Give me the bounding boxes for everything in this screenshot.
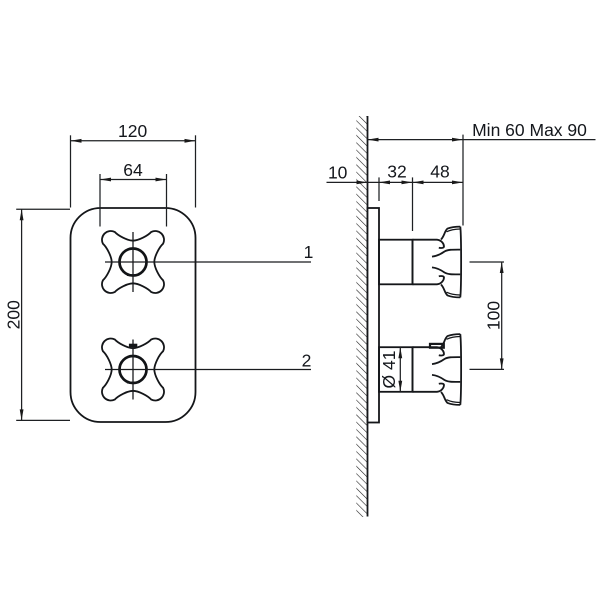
- svg-text:2: 2: [302, 350, 312, 370]
- knob 2 side: [413, 334, 462, 405]
- svg-text:48: 48: [430, 162, 449, 182]
- handle 2 index tick: [129, 344, 137, 348]
- wall line: [367, 116, 369, 517]
- dimension 120: [71, 135, 196, 207]
- cartridge sleeve 2: [379, 347, 413, 392]
- knob 1 side: [413, 227, 462, 298]
- dimension 100: [470, 262, 505, 369]
- svg-text:64: 64: [123, 160, 143, 180]
- escutcheon plate side: [368, 208, 380, 423]
- svg-text:1: 1: [304, 242, 314, 262]
- svg-text:120: 120: [118, 121, 147, 141]
- handle 2 front: [102, 338, 164, 400]
- knob 2 index tab: [430, 344, 444, 348]
- handle 1 front: [102, 231, 164, 293]
- svg-text:10: 10: [328, 163, 348, 183]
- leader line 1: [105, 261, 311, 263]
- svg-text:100: 100: [484, 301, 504, 330]
- dimension 200: [16, 209, 70, 420]
- svg-text:Min 60 Max 90: Min 60 Max 90: [472, 120, 587, 140]
- dimension Min 60 Max 90: [368, 139, 596, 141]
- wall hatch: [356, 116, 367, 517]
- cartridge sleeve 1: [379, 240, 413, 285]
- svg-text:200: 200: [3, 300, 23, 329]
- dimension 64: [100, 174, 167, 227]
- leader line 2: [105, 369, 311, 371]
- dimension chain 10 32 48: [327, 135, 464, 231]
- dimension Ø41: [399, 347, 401, 392]
- escutcheon plate front: [71, 208, 196, 422]
- svg-text:32: 32: [387, 162, 406, 182]
- svg-text:Ø 41: Ø 41: [379, 351, 399, 389]
